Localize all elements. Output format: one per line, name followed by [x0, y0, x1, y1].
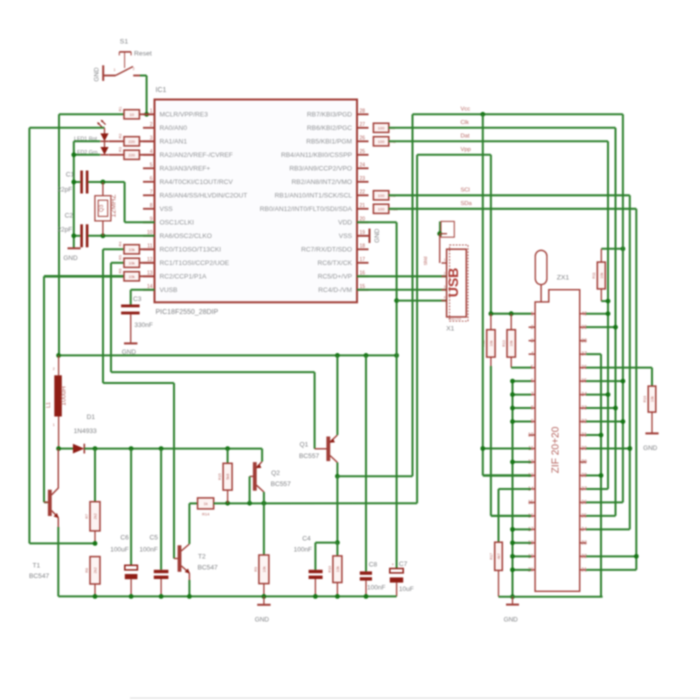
svg-text:BC547: BC547 — [29, 573, 49, 580]
svg-text:R10: R10 — [328, 566, 332, 573]
svg-text:C6: C6 — [120, 534, 129, 541]
svg-text:100: 100 — [378, 193, 385, 198]
svg-text:RC5/D+/VP: RC5/D+/VP — [318, 274, 353, 281]
svg-text:RB1/AN10/INT1/SCK/SCL: RB1/AN10/INT1/SCK/SCL — [275, 193, 353, 200]
svg-text:GND: GND — [504, 616, 519, 623]
svg-text:RB5/KBI1/PGM: RB5/KBI1/PGM — [306, 139, 352, 146]
svg-text:GND: GND — [63, 255, 78, 262]
svg-text:L1: L1 — [46, 402, 52, 408]
svg-text:R6: R6 — [118, 269, 122, 274]
svg-text:7: 7 — [531, 392, 534, 398]
svg-text:VDD: VDD — [338, 220, 352, 227]
svg-text:GND: GND — [374, 228, 381, 243]
svg-text:10k: 10k — [128, 247, 134, 252]
svg-text:BC547: BC547 — [198, 565, 218, 572]
svg-text:R4: R4 — [118, 242, 122, 247]
svg-text:RC1/T1OSI/CCP2/UOE: RC1/T1OSI/CCP2/UOE — [160, 260, 230, 267]
svg-text:3: 3 — [444, 285, 446, 289]
svg-text:D1: D1 — [87, 414, 96, 421]
svg-text:10: 10 — [129, 112, 134, 117]
svg-text:VSS: VSS — [160, 206, 174, 213]
svg-text:Reset: Reset — [134, 51, 152, 58]
svg-text:24: 24 — [360, 163, 366, 169]
svg-text:Vpp: Vpp — [461, 147, 471, 153]
svg-text:BC557: BC557 — [299, 453, 319, 460]
svg-text:5k6: 5k6 — [226, 474, 230, 480]
svg-text:ZIF 20+20: ZIF 20+20 — [551, 426, 562, 473]
svg-text:PN61729: PN61729 — [449, 317, 462, 321]
svg-text:6: 6 — [150, 176, 153, 182]
svg-text:RB0/AN12/INT0/FLT0/SDI/SDA: RB0/AN12/INT0/FLT0/SDI/SDA — [260, 206, 353, 213]
svg-text:RA1/AN1: RA1/AN1 — [160, 139, 188, 146]
svg-text:21: 21 — [360, 203, 366, 209]
svg-text:USB: USB — [445, 268, 461, 298]
svg-text:R7: R7 — [85, 514, 89, 519]
svg-text:1k: 1k — [203, 501, 207, 506]
svg-text:2: 2 — [133, 67, 135, 71]
svg-text:2: 2 — [53, 367, 55, 371]
svg-text:38: 38 — [581, 338, 587, 344]
svg-text:10k: 10k — [336, 566, 340, 572]
svg-text:MCLR/VPP/RE3: MCLR/VPP/RE3 — [160, 112, 209, 119]
svg-text:2: 2 — [150, 122, 153, 128]
svg-text:Vcc: Vcc — [461, 107, 471, 113]
svg-text:C4: C4 — [302, 536, 311, 543]
svg-text:BC557: BC557 — [271, 481, 291, 488]
svg-text:+: + — [392, 562, 395, 567]
svg-text:100: 100 — [378, 139, 385, 144]
svg-text:RC0/T1OSO/T13CKI: RC0/T1OSO/T13CKI — [160, 247, 222, 254]
svg-text:25: 25 — [360, 149, 366, 155]
svg-text:R8: R8 — [85, 568, 89, 573]
svg-text:R9: R9 — [254, 567, 258, 572]
svg-text:10k: 10k — [489, 340, 493, 346]
svg-text:OSC1/CLKI: OSC1/CLKI — [160, 220, 195, 227]
svg-text:6: 6 — [531, 379, 534, 385]
svg-text:ZX1: ZX1 — [557, 275, 570, 282]
svg-text:330nF: 330nF — [134, 322, 152, 329]
svg-text:R2: R2 — [118, 134, 122, 139]
svg-text:GND: GND — [643, 445, 658, 452]
svg-text:R11: R11 — [592, 272, 596, 278]
svg-text:10k: 10k — [510, 340, 514, 346]
svg-text:Dat: Dat — [461, 134, 470, 140]
svg-text:C8: C8 — [369, 562, 378, 569]
svg-text:SDa: SDa — [461, 201, 473, 207]
svg-text:23: 23 — [581, 540, 587, 546]
svg-text:C7: C7 — [399, 561, 408, 568]
svg-text:22: 22 — [360, 190, 366, 196]
svg-text:100nF: 100nF — [139, 546, 157, 553]
svg-text:RB3/AN9/CCP2/VPO: RB3/AN9/CCP2/VPO — [289, 166, 352, 173]
svg-text:RA0/AN0: RA0/AN0 — [160, 125, 188, 132]
svg-text:C1: C1 — [66, 172, 75, 179]
svg-text:R5: R5 — [118, 255, 122, 260]
svg-text:27: 27 — [360, 122, 366, 128]
svg-text:7: 7 — [150, 190, 153, 196]
svg-text:RC4/D-/VM: RC4/D-/VM — [318, 287, 352, 294]
svg-text:12MHZ: 12MHZ — [111, 194, 118, 218]
svg-text:RC2/CCP1/P1A: RC2/CCP1/P1A — [160, 274, 208, 281]
svg-text:C5: C5 — [150, 534, 159, 541]
svg-text:10k: 10k — [651, 396, 655, 402]
svg-text:R14: R14 — [202, 512, 210, 517]
svg-text:2k2: 2k2 — [94, 513, 98, 519]
svg-text:1: 1 — [53, 423, 55, 427]
svg-text:9: 9 — [531, 419, 534, 425]
svg-text:2: 2 — [444, 271, 446, 275]
svg-text:2k2: 2k2 — [94, 567, 98, 573]
svg-text:1: 1 — [531, 311, 534, 317]
svg-text:RB6/KBI2/PGC: RB6/KBI2/PGC — [307, 125, 352, 132]
svg-text:10k: 10k — [128, 260, 134, 265]
svg-text:IC1: IC1 — [156, 87, 167, 94]
svg-text:C3: C3 — [133, 296, 142, 303]
svg-text:RA5/AN4/SS/HLVDIN/C2OUT: RA5/AN4/SS/HLVDIN/C2OUT — [160, 193, 248, 200]
svg-text:S1: S1 — [120, 39, 129, 46]
svg-text:17: 17 — [360, 257, 366, 263]
svg-text:RB4/AN11/KBI0/CSSPP: RB4/AN11/KBI0/CSSPP — [281, 152, 353, 159]
svg-text:R3: R3 — [118, 147, 122, 152]
svg-text:100nF: 100nF — [294, 546, 312, 553]
svg-text:R1: R1 — [118, 107, 122, 112]
svg-text:RA3/AN3/VREF+: RA3/AN3/VREF+ — [160, 166, 211, 173]
svg-text:RC6/TX/CK: RC6/TX/CK — [318, 260, 353, 267]
svg-text:R15: R15 — [218, 473, 222, 480]
svg-text:8: 8 — [531, 406, 534, 412]
svg-text:RC7/RX/DT/SDO: RC7/RX/DT/SDO — [301, 247, 352, 254]
svg-text:GND: GND — [94, 67, 101, 82]
svg-text:10k: 10k — [600, 272, 604, 278]
svg-text:VUSB: VUSB — [160, 287, 179, 294]
svg-text:Shld: Shld — [423, 256, 428, 265]
svg-text:R17: R17 — [489, 553, 493, 560]
svg-text:2: 2 — [531, 325, 534, 331]
svg-text:1N4933: 1N4933 — [74, 428, 97, 435]
svg-text:18: 18 — [360, 244, 366, 250]
svg-text:23: 23 — [360, 176, 366, 182]
svg-text:RA2/AN2/VREF-/CVREF: RA2/AN2/VREF-/CVREF — [160, 152, 233, 159]
svg-text:220: 220 — [128, 152, 135, 157]
svg-text:26: 26 — [360, 136, 366, 142]
svg-text:28: 28 — [360, 109, 366, 115]
svg-text:22pF: 22pF — [57, 187, 72, 194]
svg-text:RA6/OSC2/CLKO: RA6/OSC2/CLKO — [160, 233, 212, 240]
svg-text:T1: T1 — [33, 563, 41, 570]
svg-text:220: 220 — [128, 139, 135, 144]
svg-text:T2: T2 — [198, 554, 206, 561]
svg-text:100: 100 — [378, 125, 385, 130]
svg-text:5: 5 — [150, 163, 153, 169]
svg-text:RB7/KBI3/PGD: RB7/KBI3/PGD — [307, 112, 352, 119]
svg-text:Q3: Q3 — [99, 205, 105, 212]
svg-text:10k: 10k — [262, 566, 266, 572]
svg-text:PIC18F2550_28DIP: PIC18F2550_28DIP — [156, 309, 219, 316]
svg-text:22pF: 22pF — [57, 226, 72, 233]
svg-text:15: 15 — [528, 500, 534, 506]
svg-text:4: 4 — [444, 296, 446, 300]
svg-text:10k: 10k — [128, 274, 134, 279]
svg-text:5: 5 — [531, 365, 534, 371]
svg-text:SCl: SCl — [461, 188, 470, 194]
svg-text:RA4/T0CKI/C1OUT/RCV: RA4/T0CKI/C1OUT/RCV — [160, 179, 234, 186]
svg-text:10: 10 — [528, 433, 534, 439]
svg-text:3: 3 — [531, 338, 534, 344]
svg-text:8: 8 — [150, 203, 153, 209]
svg-text:X1: X1 — [446, 325, 454, 332]
svg-text:29: 29 — [581, 460, 587, 466]
svg-text:100: 100 — [378, 206, 385, 211]
svg-text:100nF: 100nF — [367, 585, 385, 592]
svg-text:1: 1 — [444, 258, 446, 262]
svg-text:RB2/AN8/INT2/VMO: RB2/AN8/INT2/VMO — [292, 179, 352, 186]
svg-text:Q2: Q2 — [271, 470, 280, 477]
svg-text:C2: C2 — [65, 213, 74, 220]
svg-text:VSS: VSS — [339, 233, 353, 240]
svg-text:GND: GND — [255, 616, 270, 623]
svg-text:Q1: Q1 — [300, 442, 309, 449]
svg-text:10uF: 10uF — [399, 586, 414, 593]
svg-text:4: 4 — [531, 352, 534, 358]
svg-text:100uH: 100uH — [61, 386, 68, 406]
svg-text:4k7: 4k7 — [497, 553, 501, 559]
svg-text:Clk: Clk — [461, 120, 469, 126]
svg-text:100uF: 100uF — [110, 546, 128, 553]
svg-text:1: 1 — [114, 68, 116, 72]
svg-text:R16: R16 — [643, 396, 647, 403]
svg-text:R13: R13 — [502, 340, 506, 347]
